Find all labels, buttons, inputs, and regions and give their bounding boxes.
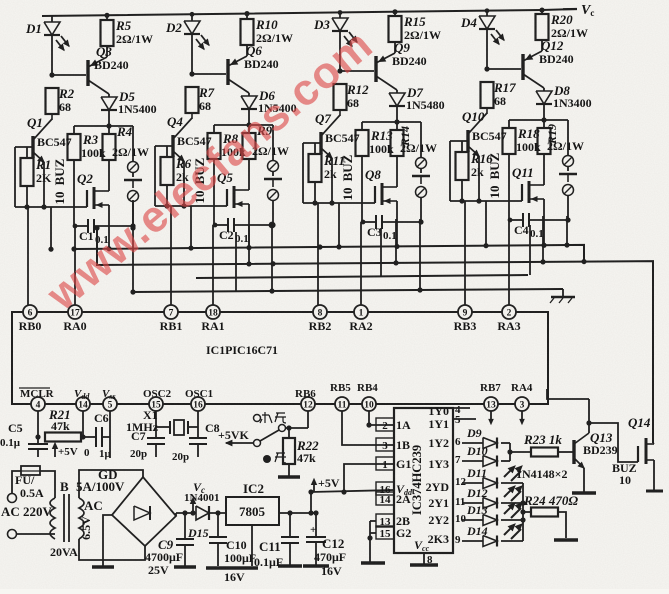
capacitor C1 0.1 — [75, 225, 88, 227]
wire base stub left — [449, 141, 451, 201]
wire R10 to Q6 emitter — [246, 45, 248, 56]
transistor Q1 BC547 NPN — [31, 136, 34, 158]
wire bus connector — [380, 228, 382, 276]
wire bridge left to ground — [103, 515, 112, 566]
pin 10 RB4 — [362, 397, 376, 411]
wire gate line — [155, 205, 227, 207]
terminal battery plus — [416, 158, 427, 169]
battery cell plate — [559, 173, 577, 175]
wire R19 top — [543, 120, 545, 128]
wire pin13 13 stub — [370, 520, 376, 522]
wire IC3 to D10 — [462, 460, 483, 462]
wire R6 bottom — [166, 185, 168, 206]
wire — [567, 167, 569, 171]
wire IC3 to D12 — [462, 502, 483, 504]
pin 1 RA2 — [354, 305, 368, 319]
wire R6 top — [166, 146, 168, 157]
wire base stub left — [302, 143, 304, 203]
resistor R15 2ohm 1W — [389, 16, 402, 42]
wire gate line — [450, 200, 522, 202]
wire R14 bottom to mosfet drain — [396, 156, 398, 187]
pin 18 RA1 — [206, 305, 220, 319]
wire gate line — [15, 206, 87, 208]
wire pin12 down — [307, 411, 309, 428]
wire R4 bottom to mosfet drain — [108, 160, 110, 191]
pin 12 RB6 — [301, 397, 315, 411]
pin 4 MCLR — [31, 397, 45, 411]
bridge rectifier GD 5A/100V — [112, 477, 176, 546]
pin 13 IC3 left — [376, 514, 394, 527]
resistor R7 68 — [186, 87, 199, 113]
resistor R18 100k — [503, 128, 516, 154]
wire RA2 drop — [360, 222, 362, 305]
LED arrows D14 — [504, 525, 514, 535]
wire secondary bottom to bridge — [79, 539, 145, 560]
wire R13 bottom to C rail — [361, 156, 363, 222]
terminal battery plus — [268, 161, 279, 172]
resistor R20 2ohm 1W — [536, 14, 549, 40]
wire Q14 source down — [653, 460, 655, 490]
transistor Q12 BD240 PNP — [521, 54, 524, 80]
wire to C12 — [311, 512, 316, 514]
LED arrows D11 — [504, 467, 514, 477]
wire box right side — [567, 120, 569, 155]
wire RA0 drop — [74, 226, 76, 305]
wire pin3 stub — [521, 411, 523, 422]
wire — [272, 201, 274, 225]
wire IC3 gnd pin8 — [423, 553, 425, 564]
wire R3 bottom to C rail — [73, 160, 75, 226]
wire LED cathode to base node — [339, 31, 341, 71]
diode D15 1N4001 — [196, 506, 209, 520]
wire R18 top — [508, 120, 510, 128]
wire D1 anode from rail — [51, 16, 53, 22]
wire to fuse — [12, 471, 21, 493]
battery cell plate — [412, 175, 430, 177]
wire pin15 stub — [370, 532, 376, 534]
diode D6 1N5400 — [248, 93, 250, 96]
capacitor C5 0.1u — [37, 437, 39, 443]
resistor R14 2ohm 1W — [391, 130, 404, 156]
wire R15 to rail — [394, 12, 396, 16]
wire LED cathode to base node — [486, 29, 488, 69]
wire R9 top — [248, 125, 250, 133]
pin 2 RA3 — [502, 305, 516, 319]
wire pin4 down — [37, 411, 39, 437]
wire pin12 to switch — [286, 427, 308, 429]
pin 16 OSC1 — [191, 397, 205, 411]
wire bus A — [74, 245, 584, 262]
wire base — [340, 70, 374, 72]
resistor R17 68 — [481, 82, 494, 108]
resistor R8 100k — [208, 133, 221, 159]
wire R1 top — [26, 147, 28, 158]
wire R20 to Q12 emitter — [541, 40, 543, 51]
LED D3 — [332, 18, 348, 31]
wire bus connector — [395, 219, 397, 263]
wire RB0 drop — [27, 207, 29, 305]
node base junction — [484, 66, 489, 71]
transistor Q13 BD239 NPN — [572, 440, 575, 464]
wire R8 bottom to C rail — [213, 159, 215, 225]
wire R24 to ground — [558, 512, 566, 538]
diode D5 1N5400 — [108, 94, 110, 97]
wire RB1 drop — [170, 206, 172, 305]
wire bus drop — [190, 206, 192, 248]
wire R21 to C6 — [81, 436, 96, 438]
wire — [420, 198, 422, 222]
wire R8 top — [213, 125, 215, 133]
pin 13 RB7 — [484, 397, 498, 411]
transistor Q9 BD240 PNP — [374, 56, 377, 82]
wire pin16 down — [197, 411, 199, 438]
resistor R21 47k — [45, 433, 81, 442]
resistor R5 2ohm 1W — [101, 20, 114, 46]
wire bus connector — [419, 219, 421, 290]
wire bus drop — [50, 207, 52, 249]
node base junction — [189, 71, 194, 76]
transformer B primary — [50, 498, 55, 539]
wire bus connector — [248, 224, 250, 264]
wire box right side — [132, 126, 134, 161]
resistor R3 100k — [68, 134, 81, 160]
wire box top — [214, 124, 273, 126]
wire bus drop — [338, 203, 340, 247]
wire +5VK with arrow — [226, 442, 253, 444]
node +5V arrow — [54, 444, 56, 457]
resistor R1 2k — [21, 158, 34, 186]
capacitor C10 100uF 16V — [217, 513, 219, 536]
wire R16 top — [461, 141, 463, 152]
mosfet Q2 BUZ10 — [86, 190, 88, 207]
wire C6 to pin5 — [102, 436, 110, 438]
pin 5 Vss — [103, 397, 117, 411]
terminal battery plus — [563, 156, 574, 167]
wire 1Y0 stub — [453, 407, 470, 409]
LED arrows D13 — [504, 504, 514, 514]
wire join to R24 — [523, 511, 531, 513]
wire Q13 collector up — [588, 399, 590, 433]
wire D2 anode from rail — [191, 14, 193, 21]
switch pole contact — [254, 440, 261, 447]
node Vc arrow — [192, 500, 194, 513]
IC IC2 7805 — [226, 497, 279, 525]
wire emitter drop — [331, 158, 333, 203]
wire bus connector — [542, 216, 544, 262]
wire bus connector — [529, 225, 531, 275]
pin 14 IC3 left — [376, 492, 394, 505]
diode D10 — [483, 456, 497, 467]
diode D12 — [483, 498, 497, 509]
wire D3 anode from rail — [339, 12, 341, 18]
wire 13-15 join to gnd — [369, 521, 371, 533]
diode D9 — [483, 438, 497, 449]
resistor R16 2k — [456, 152, 469, 180]
terminal battery minus — [128, 191, 139, 202]
wire IC3 to D9 — [462, 442, 483, 444]
transistor Q4 BC547 NPN — [171, 135, 174, 157]
label fast charge — [260, 412, 286, 423]
diode D13 — [483, 515, 497, 526]
diode D7 1N5480 — [396, 90, 398, 93]
wire source line to bus A — [543, 220, 545, 245]
wire R5 to Q3 emitter — [106, 46, 108, 57]
scan noise overlay — [0, 0, 1, 1]
crystal X1 1MHz — [156, 426, 170, 428]
wire pin15 down — [155, 411, 157, 438]
capacitor C11 0.1uF — [289, 513, 291, 536]
wire gate line — [303, 202, 375, 204]
wire bus C — [196, 275, 528, 278]
wire secondary top to bridge — [79, 470, 143, 498]
diode D8 1N3400 — [543, 88, 545, 91]
wire pin5 down — [109, 411, 111, 437]
wire base — [192, 73, 226, 75]
battery cell plate — [124, 179, 142, 181]
wire IC2 output — [279, 512, 311, 514]
wire RA3 drop — [508, 220, 510, 305]
wire IC3 to D11 — [462, 482, 483, 484]
switch lever — [260, 430, 279, 441]
wire bus connector — [235, 232, 237, 291]
wire box top — [74, 125, 133, 127]
wire Vc top rail — [42, 9, 577, 16]
wire D11-D14 join — [501, 482, 523, 484]
resistor R13 100k — [356, 130, 369, 156]
pin 16 IC3 left — [376, 482, 394, 495]
LED D4 — [479, 16, 495, 29]
pin 15 IC3 left — [376, 526, 394, 539]
capacitor C12 470uF 16V — [315, 513, 317, 536]
pin 9 RB3 — [458, 305, 472, 319]
node +5V rail arrow — [310, 492, 312, 513]
node base junction — [49, 72, 54, 77]
wire R3 top — [73, 126, 75, 134]
wire RB4 to 1A — [369, 411, 394, 425]
resistor R24 470ohm — [531, 508, 558, 517]
wire — [132, 202, 134, 226]
wire IC3 to D13 — [462, 519, 483, 521]
wire R1 bottom — [26, 186, 28, 207]
wire — [272, 172, 274, 176]
capacitor C4 0.1 — [510, 219, 523, 221]
wire D4 anode from rail — [486, 11, 488, 16]
wire join to R23 — [510, 451, 531, 453]
wire R16 bottom — [461, 180, 463, 201]
resistor R23 1k — [531, 448, 558, 457]
IC U1 PIC16C71 box — [12, 312, 548, 404]
wire R5 to rail — [106, 15, 108, 20]
transistor Q6 BD240 PNP — [226, 59, 229, 85]
wire LED cathode to base node — [51, 35, 53, 75]
wire IC2 gnd — [251, 525, 253, 566]
wire RB5 to 1B — [342, 411, 394, 445]
capacitor C3 0.1 — [363, 221, 376, 223]
mosfet Q14 BUZ10 — [637, 446, 639, 462]
terminal battery minus — [416, 187, 427, 198]
wire box top — [362, 121, 421, 123]
wire bus connector — [566, 216, 568, 245]
wire — [567, 196, 569, 220]
transistor Q10 BC547 NPN — [466, 130, 469, 152]
mosfet Q5 BUZ10 — [226, 189, 228, 206]
wire source line to bus A — [248, 225, 250, 248]
wire LED cathode to base node — [191, 34, 193, 74]
label slow charge — [263, 455, 271, 463]
LED arrows D12 — [504, 487, 514, 497]
wire base stub left — [14, 147, 16, 207]
ground R22 — [288, 464, 290, 476]
wire diode to box node — [543, 104, 545, 120]
wire bus connector — [271, 224, 273, 291]
wire diode to box node — [248, 109, 250, 125]
transistor Q3 BD240 PNP — [86, 60, 89, 86]
wire R10 to rail — [246, 14, 248, 19]
wire D15 to IC2 — [209, 512, 226, 514]
wire R20 to rail — [541, 10, 543, 14]
IC U3 74HC239 box — [394, 408, 453, 553]
wire neutral to primary — [16, 533, 55, 535]
wire R13 top — [361, 122, 363, 130]
wire — [420, 169, 422, 173]
capacitor C8 20p — [189, 437, 207, 439]
wire bus D — [133, 289, 563, 292]
LED D1 — [44, 22, 60, 35]
ground bus D — [562, 289, 564, 297]
pin 11 RB5 — [335, 397, 349, 411]
wire base stub left — [154, 146, 156, 206]
wire RB2 drop — [317, 203, 319, 305]
terminal battery minus — [563, 185, 574, 196]
resistor R22 47k — [288, 428, 290, 438]
wire bridge plus output — [175, 513, 177, 516]
wire R11 top — [314, 143, 316, 154]
terminal battery minus — [268, 190, 279, 201]
wire G1 to +5V — [344, 464, 394, 492]
terminal battery plus — [128, 162, 139, 173]
wire base — [52, 74, 86, 76]
wire R19 bottom to mosfet drain — [543, 154, 545, 185]
capacitor C2 0.1 — [215, 224, 228, 226]
wire base — [487, 68, 521, 70]
pin 3 RA4 — [515, 397, 529, 411]
resistor R19 2ohm 1W — [538, 128, 551, 154]
mosfet Q8 BUZ10 — [374, 186, 376, 203]
pin 6 RB0 — [23, 305, 37, 319]
terminal AC neutral — [8, 530, 17, 539]
pin 3 IC3 left — [376, 438, 394, 451]
wire IC3 to D14 — [462, 540, 483, 542]
wire Q13 collector to Q14 gate — [586, 420, 591, 425]
diode D14 — [483, 536, 497, 547]
wire D9 D10 join — [501, 442, 510, 444]
transformer core — [63, 494, 65, 542]
fuse FU 0.5A — [21, 466, 40, 475]
wire diode to box node — [108, 110, 110, 126]
resistor R11 2k — [309, 154, 322, 182]
pin 17 RA0 — [68, 305, 82, 319]
wire diode to box node — [396, 106, 398, 122]
wire pin13 stub — [490, 411, 492, 422]
wire R23 to Q13 base — [558, 451, 574, 453]
wire box right side — [272, 125, 274, 160]
pin 7 RB1 — [164, 305, 178, 319]
pin 14 Vdd — [76, 397, 90, 411]
resistor R4 2ohm 1W — [103, 134, 116, 160]
wire R9 bottom to mosfet drain — [248, 159, 250, 190]
wire emitter drop — [183, 161, 185, 206]
pin 2 IC3 left — [376, 418, 394, 431]
wire R14 top — [396, 122, 398, 130]
wire pin14 down — [82, 411, 84, 437]
wire bus connector — [132, 200, 134, 292]
junction dots on buses — [71, 246, 76, 251]
capacitor C6 1u — [95, 427, 97, 447]
battery cell plate — [264, 178, 282, 180]
wire source line to bus A — [396, 222, 398, 246]
wire R15 to Q9 emitter — [394, 42, 396, 53]
LED D2 — [184, 21, 200, 34]
switch fast-charge contact — [254, 415, 261, 422]
wire fuse to primary — [40, 471, 55, 498]
wire Q14 drain from bus — [653, 443, 654, 444]
node base junction — [337, 68, 342, 73]
transistor Q7 BC547 NPN — [319, 132, 322, 154]
wire R11 bottom — [314, 182, 316, 203]
pin 15 OSC2 — [149, 397, 163, 411]
wire box right side — [420, 122, 422, 157]
wire Q13 emitter to ground — [583, 468, 585, 492]
pin 1 IC3 left — [376, 457, 394, 470]
resistor R2 68 — [46, 88, 59, 114]
wire R18 bottom to C rail — [508, 154, 510, 220]
transformer B secondary — [79, 498, 84, 539]
wire RB3 drop — [464, 201, 466, 305]
wire emitter drop — [478, 156, 480, 201]
capacitor C7 20p — [147, 437, 165, 439]
resistor R6 2k — [161, 157, 174, 185]
wire +5V to IC3 — [311, 490, 394, 492]
wire box top — [509, 119, 568, 121]
diode D11 — [483, 478, 497, 489]
wire 1Y1 stub — [453, 418, 476, 420]
resistor R9 2ohm 1W — [243, 133, 256, 159]
wire bus B — [97, 228, 653, 443]
wire R4 top — [108, 126, 110, 134]
wire — [132, 173, 134, 177]
terminal AC live — [8, 494, 17, 503]
pin 8 RB2 — [313, 305, 327, 319]
resistor R12 68 — [334, 84, 347, 110]
wire emitter drop — [43, 162, 45, 207]
resistor R10 2ohm 1W — [241, 19, 254, 45]
wire bus drop — [485, 201, 487, 246]
wire RA1 drop — [212, 225, 214, 305]
mosfet Q11 BUZ10 — [521, 184, 523, 201]
capacitor C9 4700uF 25V — [184, 513, 186, 538]
wire source line to bus A — [108, 226, 110, 249]
